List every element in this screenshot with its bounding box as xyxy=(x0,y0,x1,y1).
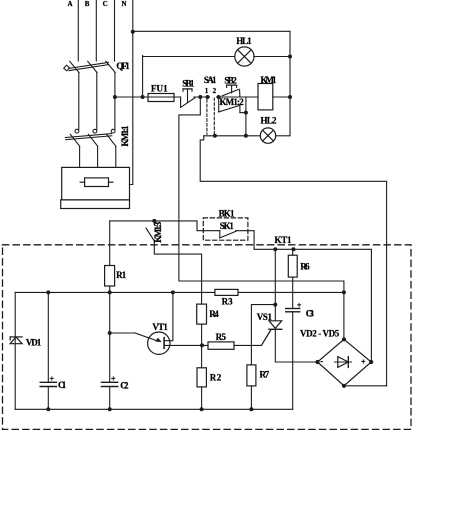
wire control feed from phase C xyxy=(115,96,148,98)
junction VT1 collector xyxy=(171,290,175,294)
wire VS1 anode branch to R7 xyxy=(251,305,275,365)
svg-text:KM1:3: KM1:3 xyxy=(153,221,163,243)
junction N tap xyxy=(131,30,135,34)
zener VD1 xyxy=(10,337,22,344)
lamp HL2 xyxy=(260,128,275,143)
resistor R1 xyxy=(105,221,115,293)
wire coil right xyxy=(273,96,290,98)
wire left branch xyxy=(14,292,16,409)
junction HL1 branch xyxy=(141,95,145,99)
wire pole C lower xyxy=(115,146,117,167)
wire pole B mid xyxy=(96,73,98,130)
svg-text:R5: R5 xyxy=(216,332,227,342)
wire pole C mid xyxy=(114,73,116,130)
junction R1 bottom xyxy=(108,290,112,294)
phase line B xyxy=(95,1,97,62)
resistor R7 xyxy=(247,365,256,409)
node bridge left corner xyxy=(315,360,319,364)
svg-text:1: 1 xyxy=(205,87,209,95)
svg-text:VD2 - VD5: VD2 - VD5 xyxy=(300,329,340,339)
svg-text:R2: R2 xyxy=(210,372,222,382)
capacitor C2 xyxy=(102,292,118,409)
svg-text:KM1:2: KM1:2 xyxy=(220,97,245,107)
junction KM1:2 out xyxy=(244,111,248,115)
svg-text:VS1: VS1 xyxy=(257,312,273,322)
resistor R5 xyxy=(208,342,234,349)
svg-text:C1: C1 xyxy=(58,380,67,390)
dashed regulator enclosure xyxy=(3,245,412,430)
svg-text:-: - xyxy=(320,356,323,366)
junction SA1 lamp row xyxy=(213,134,217,138)
capacitor C3 xyxy=(286,309,300,410)
junction SA1 contact 2 / SB2 in xyxy=(217,95,221,99)
wire KM1:3 row xyxy=(110,220,197,222)
phase line A xyxy=(77,1,79,62)
svg-text:SB1: SB1 xyxy=(182,78,195,88)
svg-text:+: + xyxy=(50,374,55,383)
junction SA1 contact 1 xyxy=(206,95,210,99)
junction R6 top xyxy=(292,247,296,251)
svg-text:C2: C2 xyxy=(120,380,129,390)
wire main rail mid xyxy=(15,291,215,293)
circuit breaker QF1 xyxy=(64,61,116,72)
wire pole B lower xyxy=(97,146,99,167)
junction HL1 right xyxy=(288,55,292,59)
svg-text:HL1: HL1 xyxy=(236,36,252,46)
contactor main contacts KM1:1 xyxy=(65,129,115,146)
svg-text:C3: C3 xyxy=(306,309,315,319)
wire pole A mid xyxy=(78,73,80,130)
fuse FU1 xyxy=(148,94,174,102)
junction bridge top feed xyxy=(342,290,346,294)
svg-text:KT1: KT1 xyxy=(275,235,293,245)
svg-text:N: N xyxy=(122,0,127,8)
wire SB1 tap jog xyxy=(179,97,344,292)
svg-text:B: B xyxy=(85,0,90,8)
wire bridge top feed xyxy=(343,292,345,339)
wire HL2 row xyxy=(204,135,261,137)
junction R7 branch xyxy=(273,303,277,307)
junction C1 top xyxy=(46,290,50,294)
svg-text:SA1: SA1 xyxy=(204,75,217,85)
wire R5 to gate xyxy=(234,344,261,346)
resistor R4 xyxy=(197,304,207,345)
svg-text:VT1: VT1 xyxy=(152,322,168,332)
resistor R3 xyxy=(215,289,238,295)
svg-text:R3: R3 xyxy=(222,297,234,307)
svg-text:R1: R1 xyxy=(116,270,127,280)
svg-text:+: + xyxy=(361,358,366,367)
thyristor VS1 xyxy=(261,249,317,362)
junction C2 bottom xyxy=(108,407,112,411)
node bridge top corner xyxy=(342,337,346,341)
coil KM1 xyxy=(258,84,273,110)
svg-text:R7: R7 xyxy=(260,369,270,379)
svg-text:+: + xyxy=(297,301,302,310)
wire N top feed xyxy=(133,30,290,32)
phase line N xyxy=(130,1,133,185)
junction R2 bottom xyxy=(200,407,204,411)
junction HL2 left xyxy=(244,134,248,138)
transistor VT1 xyxy=(110,292,208,354)
junction R7 bottom xyxy=(249,407,253,411)
wire to SK1 xyxy=(197,221,220,231)
svg-text:R4: R4 xyxy=(209,309,219,319)
junction C1 bottom xyxy=(46,407,50,411)
contact SK1 xyxy=(220,231,236,238)
svg-text:QF1: QF1 xyxy=(116,61,130,71)
lamp HL1 xyxy=(235,47,254,66)
wire right return xyxy=(289,31,291,136)
svg-text:FU1: FU1 xyxy=(151,84,168,94)
svg-text:BK1: BK1 xyxy=(219,209,235,219)
phase line C xyxy=(114,1,116,62)
junction SB1 out xyxy=(198,95,202,99)
heater load box xyxy=(61,167,130,208)
wire SK1 to KT1 row xyxy=(236,231,372,362)
svg-text:HL2: HL2 xyxy=(261,115,278,125)
junction R4 R2 R5 xyxy=(200,343,204,347)
resistor R2 xyxy=(197,345,206,409)
junction KM1:3 tap xyxy=(152,219,156,223)
junction KM1 coil right xyxy=(288,95,292,99)
junction VS1 anode feed xyxy=(273,247,277,251)
node bridge bottom corner xyxy=(342,384,346,388)
svg-text:KM1:1: KM1:1 xyxy=(120,125,130,147)
button SB2 xyxy=(222,85,240,97)
wire HL1 branch xyxy=(142,56,144,98)
wire SB1 to SA1 xyxy=(194,96,210,98)
svg-text:C: C xyxy=(103,0,108,8)
wire HL2 left route to rectifier xyxy=(200,136,386,386)
wire bridge bottom out xyxy=(344,385,387,387)
switch SA1 gap xyxy=(217,96,258,98)
SA1 linkage dashed 2 xyxy=(213,98,215,135)
svg-text:VD1: VD1 xyxy=(26,337,42,347)
junction VT1 emitter tap xyxy=(108,331,112,335)
bridge rectifier VD2-VD5 xyxy=(318,339,372,386)
svg-text:KM1: KM1 xyxy=(261,75,278,85)
wire pole A lower xyxy=(79,146,81,167)
svg-text:+: + xyxy=(111,374,116,383)
svg-text:SB2: SB2 xyxy=(224,75,237,85)
contact KM1:2 xyxy=(219,97,246,113)
wire KM1:2 right drop xyxy=(245,97,247,136)
capacitor C1 xyxy=(40,292,56,409)
junction phase C tap xyxy=(113,95,117,99)
svg-text:SK1: SK1 xyxy=(220,221,235,231)
button SB1 xyxy=(181,89,195,108)
sensor box BK1 xyxy=(203,218,248,240)
contact KM1:3 xyxy=(146,221,202,304)
svg-text:R6: R6 xyxy=(300,261,310,271)
node bridge right corner xyxy=(369,360,373,364)
SA1 linkage dashed 1 xyxy=(206,100,208,135)
resistor R6 xyxy=(288,249,297,308)
wire bottom rail xyxy=(15,408,293,410)
svg-text:A: A xyxy=(68,0,73,8)
svg-text:2: 2 xyxy=(213,87,217,95)
